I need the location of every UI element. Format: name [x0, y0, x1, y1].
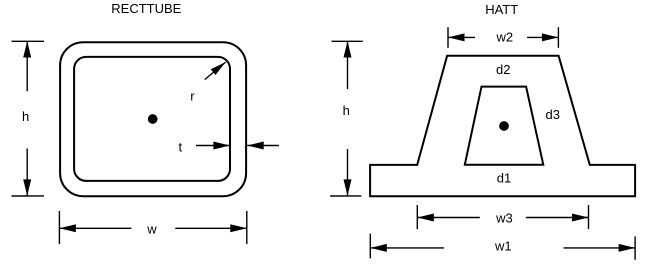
radius r leader arrowhead	[211, 62, 226, 75]
svg-text:d3: d3	[546, 107, 560, 122]
HATT centroid dot	[499, 121, 509, 131]
dimension w1 left extension tick	[369, 234, 371, 259]
svg-text:h: h	[343, 103, 350, 118]
radius r leader line	[205, 62, 226, 80]
dimension w2 right line	[527, 36, 558, 38]
svg-text:HATT: HATT	[485, 2, 518, 17]
dimension w2 left line	[448, 36, 475, 38]
dimension h (RECTTUBE) lower line	[26, 149, 28, 196]
dimension w (RECTTUBE) left arrowhead	[59, 224, 76, 232]
dimension h (HATT) bottom extension tick	[330, 195, 361, 197]
thickness t left arrow line	[196, 145, 230, 147]
dimension w2 right extension tick	[557, 27, 559, 48]
dimension w3 right line	[526, 217, 589, 219]
dimension w (RECTTUBE) left extension tick	[58, 211, 60, 244]
svg-text:d2: d2	[496, 62, 510, 77]
dimension w2 right arrowhead	[542, 33, 559, 41]
svg-text:w2: w2	[496, 29, 514, 44]
dimension w1 right arrowhead	[619, 244, 636, 252]
dimension h (HATT) lower line	[347, 149, 349, 196]
svg-text:w: w	[146, 221, 157, 236]
dimension h (RECTTUBE) upper line	[26, 41, 28, 91]
HATT inner trapezoid hole	[465, 87, 544, 165]
HATT outer outline	[370, 56, 635, 196]
dimension w3 right extension tick	[588, 205, 590, 229]
dimension w (RECTTUBE) right line	[175, 227, 247, 229]
dimension h (RECTTUBE) top extension tick	[12, 40, 45, 42]
dimension h (HATT) up arrowhead	[344, 41, 352, 58]
dimension w3 left arrowhead	[417, 214, 434, 222]
dimension w (RECTTUBE) right extension tick	[246, 211, 248, 244]
thickness t right arrowhead	[247, 142, 264, 150]
dimension w2 left extension tick	[447, 27, 449, 48]
dimension h (HATT) upper line	[347, 41, 349, 89]
dimension w (RECTTUBE) left line	[59, 227, 131, 229]
thickness t right arrow line	[247, 145, 279, 147]
dimension w1 left arrowhead	[370, 244, 387, 252]
dimension w1 left line	[370, 247, 444, 249]
dimension h (RECTTUBE) up arrowhead	[23, 41, 31, 58]
dimension h (RECTTUBE) down arrowhead	[23, 179, 31, 196]
dimension h (HATT) down arrowhead	[344, 179, 352, 196]
svg-text:w1: w1	[494, 238, 512, 253]
RECTTUBE inner wall	[74, 57, 230, 181]
dimension w1 right extension tick	[634, 236, 636, 259]
dimension w3 left line	[417, 217, 480, 219]
dimension w3 left extension tick	[416, 205, 418, 229]
svg-text:RECTTUBE: RECTTUBE	[111, 1, 181, 16]
dimension h (HATT) top extension tick	[332, 40, 363, 42]
svg-text:r: r	[190, 88, 195, 103]
dimension w2 left arrowhead	[448, 33, 465, 41]
RECTTUBE centroid dot	[148, 114, 158, 124]
dimension h (RECTTUBE) bottom extension tick	[12, 195, 45, 197]
dimension w3 right arrowhead	[572, 214, 589, 222]
RECTTUBE outer wall	[60, 42, 246, 196]
dimension w (RECTTUBE) right arrowhead	[230, 224, 247, 232]
svg-text:h: h	[22, 109, 29, 124]
thickness t left arrowhead	[213, 142, 230, 150]
svg-text:t: t	[179, 139, 183, 154]
dimension w1 right line	[564, 247, 636, 249]
svg-text:d1: d1	[497, 170, 511, 185]
svg-text:w3: w3	[495, 210, 513, 225]
